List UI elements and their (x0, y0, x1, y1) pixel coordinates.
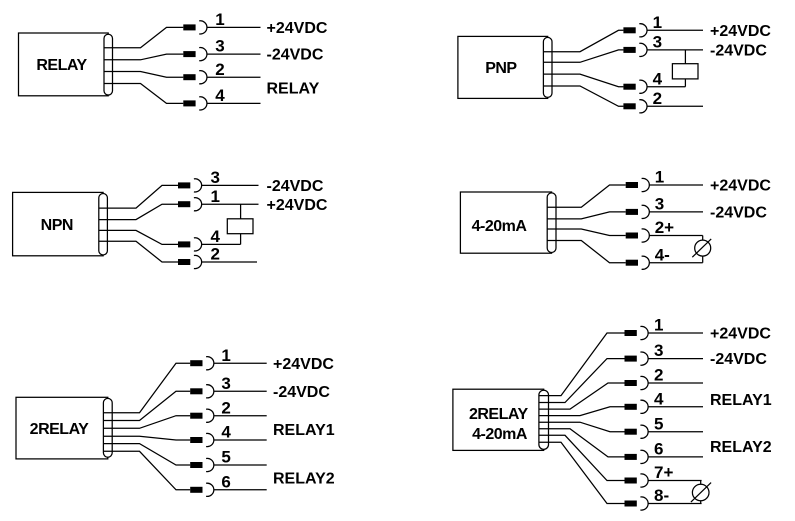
device box 2RELAY (16, 397, 108, 459)
device box 2RELAY 4-20mA (453, 389, 544, 450)
svg-text:2: 2 (211, 245, 220, 264)
terminal pin 4 (623, 80, 647, 93)
wire from PNP to pin 2 (543, 86, 623, 106)
wire pin 1 lead (648, 332, 703, 334)
wire pin 2 lead (207, 76, 261, 78)
device box 4-20mA (460, 192, 551, 253)
node junction pin3 line (684, 50, 686, 64)
wire pin 6 lead (214, 489, 267, 491)
wire pin 4 lead (202, 243, 241, 245)
wire from RELAY to pin 3 (104, 54, 183, 60)
svg-text:6: 6 (654, 440, 663, 459)
svg-text:+24VDC: +24VDC (710, 178, 771, 195)
terminal pin 6 (625, 450, 649, 463)
wire from 2RELAY 4-20mA to pin 6 (539, 429, 625, 457)
svg-text:1: 1 (655, 168, 664, 187)
svg-text:3: 3 (215, 37, 224, 56)
ammeter (4-20mA output meter) (692, 484, 709, 501)
svg-text:RELAY: RELAY (267, 80, 320, 97)
wire pin 3 lead (214, 390, 267, 392)
svg-text:3: 3 (655, 195, 664, 214)
svg-text:1: 1 (221, 346, 230, 365)
wire pin 3 lead (649, 211, 703, 213)
svg-text:RELAY1: RELAY1 (273, 422, 335, 439)
svg-text:3: 3 (654, 341, 663, 360)
terminal pin 1 (190, 357, 214, 370)
wire from 4-20mA to pin 2+ (547, 229, 626, 236)
wire from 2RELAY 4-20mA to pin 4 (539, 407, 625, 416)
wire pin 3 lead (648, 358, 703, 360)
wire from 4-20mA to pin 4- (547, 241, 626, 263)
wire from NPN to pin 3 (99, 185, 178, 208)
wire pin 2+ lead (649, 235, 702, 237)
terminal pin 3 (190, 385, 214, 398)
load resistor (NPN output) (227, 219, 253, 234)
terminal pin 6 (190, 483, 214, 496)
load resistor (PNP output) (672, 64, 698, 79)
wire from 2RELAY to pin 5 (103, 444, 190, 465)
svg-text:3: 3 (211, 168, 220, 187)
svg-text:+24VDC: +24VDC (267, 197, 328, 214)
wire from NPN to pin 2 (99, 241, 178, 262)
svg-text:NPN: NPN (41, 217, 73, 234)
svg-text:4-20mA: 4-20mA (472, 426, 528, 443)
wire pin 2 lead (202, 261, 257, 263)
wire pin 3 lead (207, 53, 261, 55)
wire from RELAY to pin 2 (104, 72, 183, 78)
terminal pin 4 (190, 433, 214, 446)
wire from PNP to pin 1 (543, 30, 623, 51)
terminal pin 3 (178, 179, 202, 192)
svg-text:4: 4 (215, 86, 225, 105)
svg-text:2: 2 (221, 398, 230, 417)
wire from 2RELAY to pin 3 (103, 391, 190, 420)
wire pin 3 lead (202, 184, 259, 186)
svg-text:4-20mA: 4-20mA (472, 218, 528, 235)
device box PNP (458, 36, 548, 98)
terminal pin 5 (625, 425, 649, 438)
wire from NPN to pin 1 (99, 204, 178, 219)
wire pin 2 lead (647, 105, 703, 107)
svg-text:8-: 8- (654, 486, 669, 505)
terminal pin 3 (623, 43, 647, 56)
svg-text:RELAY2: RELAY2 (710, 439, 772, 456)
svg-text:4: 4 (653, 69, 663, 88)
svg-text:4: 4 (221, 423, 231, 442)
svg-text:-24VDC: -24VDC (710, 351, 767, 368)
connector capsule of 2RELAY (103, 398, 112, 457)
svg-text:2: 2 (653, 89, 662, 108)
svg-text:4: 4 (654, 389, 664, 408)
svg-text:RELAY2: RELAY2 (273, 471, 335, 488)
wire from RELAY to pin 4 (104, 84, 183, 104)
wire pin 1 lead (202, 203, 259, 205)
svg-text:RELAY1: RELAY1 (710, 392, 772, 409)
wire from 4-20mA to pin 1 (547, 185, 626, 207)
svg-text:+24VDC: +24VDC (273, 356, 334, 373)
svg-text:5: 5 (654, 414, 663, 433)
svg-text:PNP: PNP (485, 60, 517, 77)
svg-text:4-: 4- (655, 245, 670, 264)
device box NPN (13, 192, 104, 255)
terminal pin 3 (625, 352, 649, 365)
terminal pin 2+ (626, 229, 650, 242)
connector capsule of RELAY (104, 34, 113, 95)
wire from NPN to pin 4 (99, 230, 178, 244)
wire from 2RELAY 4-20mA to pin 2 (539, 383, 625, 409)
terminal pin 5 (190, 458, 214, 471)
wire from 2RELAY 4-20mA to pin 3 (539, 359, 625, 403)
svg-text:7+: 7+ (654, 463, 673, 482)
wire pin 8- lead (648, 503, 702, 505)
terminal pin 4 (625, 400, 649, 413)
wire from PNP to pin 4 (543, 74, 623, 87)
svg-text:1: 1 (211, 187, 220, 206)
terminal pin 1 (183, 21, 207, 34)
svg-text:1: 1 (654, 316, 663, 335)
wire pin 5 lead (214, 464, 267, 466)
wire pin2+ to ammeter (702, 236, 704, 241)
wire ammeter to pin8- (700, 501, 702, 504)
wire pin 1 lead (207, 26, 261, 28)
svg-text:5: 5 (221, 448, 230, 467)
svg-text:+24VDC: +24VDC (710, 23, 771, 40)
terminal pin 2 (623, 100, 647, 113)
node junction pin1 line (240, 204, 242, 219)
terminal pin 1 (626, 178, 650, 191)
wire pin 4 lead (207, 102, 261, 104)
svg-text:RELAY: RELAY (36, 57, 87, 74)
wire from 2RELAY 4-20mA to pin 5 (539, 422, 625, 432)
connector capsule of NPN (99, 194, 108, 256)
svg-text:3: 3 (221, 374, 230, 393)
svg-text:3: 3 (653, 33, 662, 52)
terminal pin 2 (178, 255, 202, 268)
svg-text:1: 1 (653, 13, 662, 32)
terminal pin 2 (190, 409, 214, 422)
wire pin 1 lead (214, 362, 267, 364)
wire from 2RELAY 4-20mA to pin 8- (539, 442, 625, 503)
ammeter (4-20mA output meter) (695, 240, 711, 256)
wire pin 5 lead (648, 431, 703, 433)
terminal pin 2 (625, 376, 649, 389)
svg-text:2RELAY: 2RELAY (30, 421, 89, 438)
wire from PNP to pin 3 (543, 50, 623, 62)
wire from 2RELAY 4-20mA to pin 7+ (539, 435, 625, 480)
wire pin 4 lead (214, 439, 267, 441)
svg-text:-24VDC: -24VDC (710, 205, 767, 222)
terminal pin 1 (178, 198, 202, 211)
wire from 2RELAY to pin 4 (103, 436, 190, 440)
wire pin7+ to ammeter (700, 481, 702, 485)
svg-text:-24VDC: -24VDC (267, 178, 324, 195)
wire pin 7+ lead (648, 480, 702, 482)
svg-text:-24VDC: -24VDC (267, 47, 324, 64)
wire ammeter to pin4- (702, 256, 704, 263)
terminal pin 8- (625, 497, 649, 510)
svg-text:2: 2 (654, 366, 663, 385)
wire load to pin 4 (240, 234, 242, 245)
svg-text:1: 1 (215, 10, 224, 29)
terminal pin 2 (183, 71, 207, 84)
wire pin 1 lead (649, 184, 703, 186)
terminal pin 3 (183, 48, 207, 61)
wire from 4-20mA to pin 3 (547, 212, 626, 219)
wire from 2RELAY to pin 2 (103, 416, 190, 429)
svg-text:-24VDC: -24VDC (710, 43, 767, 60)
svg-text:6: 6 (221, 472, 230, 491)
wire pin 1 lead (647, 29, 703, 31)
terminal pin 4 (183, 97, 207, 110)
wire load to pin 4 (684, 79, 686, 87)
connector capsule of PNP (543, 37, 552, 97)
wire pin 4 lead (648, 406, 703, 408)
terminal pin 3 (626, 205, 650, 218)
svg-text:4: 4 (211, 227, 221, 246)
svg-text:+24VDC: +24VDC (267, 20, 328, 37)
svg-text:-24VDC: -24VDC (273, 384, 330, 401)
terminal pin 4- (626, 256, 650, 269)
terminal pin 1 (625, 326, 649, 339)
svg-text:2: 2 (215, 60, 224, 79)
terminal pin 7+ (625, 474, 649, 487)
terminal pin 4 (178, 238, 202, 251)
svg-text:2+: 2+ (655, 218, 674, 237)
wire pin 3 lead (647, 49, 703, 51)
wire pin 4 lead (647, 86, 685, 88)
wire pin 2 lead (214, 415, 267, 417)
wire from 2RELAY 4-20mA to pin 1 (539, 333, 625, 396)
wire from 2RELAY to pin 1 (103, 363, 190, 413)
wire pin 4- lead (649, 262, 702, 264)
terminal pin 1 (623, 24, 647, 37)
svg-text:2RELAY: 2RELAY (469, 406, 528, 423)
wire pin 6 lead (648, 456, 703, 458)
wire pin 2 lead (648, 382, 703, 384)
svg-text:+24VDC: +24VDC (710, 326, 771, 343)
connector capsule of 4-20mA (547, 193, 556, 253)
device box RELAY (19, 33, 109, 96)
wire from RELAY to pin 1 (104, 27, 183, 47)
connector capsule of 2RELAY 4-20mA (539, 390, 549, 449)
wire from 2RELAY to pin 6 (103, 451, 190, 490)
